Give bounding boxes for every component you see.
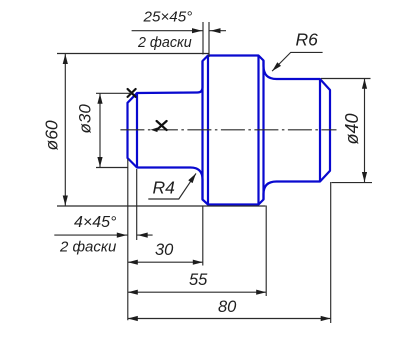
svg-text:55: 55 bbox=[189, 271, 208, 289]
svg-text:4×45°: 4×45° bbox=[74, 214, 117, 231]
dimension d40 extension lines bbox=[321, 78, 371, 80]
chamfer line flange right bbox=[257, 56, 259, 205]
chamfer dimension 4x45 shelf and arrows bbox=[54, 234, 128, 236]
dimension 80 extension line right bbox=[330, 182, 332, 323]
dimension 30 line bbox=[128, 261, 203, 263]
dimension d30 extension lines bbox=[96, 92, 131, 94]
dimension d60 extension lines bbox=[57, 53, 209, 55]
centerline (axis) bbox=[120, 129, 336, 131]
dimension 30 extension line right bbox=[202, 206, 204, 266]
svg-text:30: 30 bbox=[155, 241, 174, 259]
chamfer dimension 4x45 extension lines bbox=[127, 159, 129, 320]
flange right face edge bbox=[262, 61, 264, 200]
marker arrow on axis bbox=[151, 128, 158, 133]
dimension 80 line bbox=[128, 318, 331, 320]
chamfer line flange left bbox=[207, 56, 209, 205]
chamfer dimension 2.5x45 extension lines bbox=[202, 22, 204, 55]
svg-text:R4: R4 bbox=[153, 178, 176, 198]
dimension 55 extension line right bbox=[265, 206, 267, 297]
svg-text:ø30: ø30 bbox=[76, 104, 95, 134]
flange left face edge bbox=[201, 61, 203, 200]
X mark on axis bbox=[157, 121, 167, 130]
dimension d30 line bbox=[99, 93, 101, 167]
dimension d60 line bbox=[64, 54, 66, 207]
svg-text:ø40: ø40 bbox=[342, 113, 362, 144]
svg-text:80: 80 bbox=[218, 298, 237, 316]
chamfer dimension 2.5x45 shelf and arrows bbox=[132, 30, 203, 32]
chamfer line left cylinder bbox=[136, 93, 138, 168]
svg-text:25×45°: 25×45° bbox=[143, 9, 193, 26]
part outline (stepped shaft silhouette) bbox=[128, 56, 331, 205]
dimension 55 line bbox=[128, 291, 266, 293]
svg-text:R6: R6 bbox=[296, 30, 319, 50]
X mark at left chamfer corner bbox=[128, 89, 136, 97]
svg-text:2 фаски: 2 фаски bbox=[137, 35, 192, 51]
svg-text:2 фаски: 2 фаски bbox=[59, 239, 117, 256]
fillet leader R6 bbox=[272, 52, 323, 71]
svg-text:ø60: ø60 bbox=[42, 120, 62, 150]
chamfer line right cylinder bbox=[319, 79, 321, 182]
fillet leader R4 bbox=[148, 173, 196, 199]
dimension d40 line bbox=[364, 79, 366, 183]
